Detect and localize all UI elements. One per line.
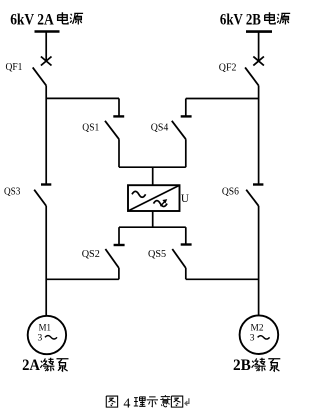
svg-text:M2: M2 (251, 323, 264, 333)
svg-text:4: 4 (123, 397, 130, 412)
svg-text:QF2: QF2 (219, 61, 237, 73)
svg-text:6kV 2A: 6kV 2A (10, 11, 54, 28)
svg-text:3: 3 (38, 333, 43, 343)
svg-text:6kV 2B: 6kV 2B (220, 11, 261, 28)
svg-text:2A: 2A (22, 357, 41, 374)
svg-text:QS1: QS1 (82, 122, 99, 134)
svg-text:3: 3 (250, 333, 255, 343)
svg-text:QS2: QS2 (82, 248, 100, 260)
svg-text:QS5: QS5 (148, 248, 167, 260)
svg-text:M1: M1 (39, 323, 52, 333)
svg-text:2B: 2B (233, 357, 251, 374)
svg-text:QS3: QS3 (4, 185, 21, 197)
svg-text:QS6: QS6 (222, 185, 239, 197)
svg-text:QF1: QF1 (6, 61, 23, 73)
svg-text:QS4: QS4 (151, 122, 169, 134)
svg-text:U: U (181, 193, 189, 205)
